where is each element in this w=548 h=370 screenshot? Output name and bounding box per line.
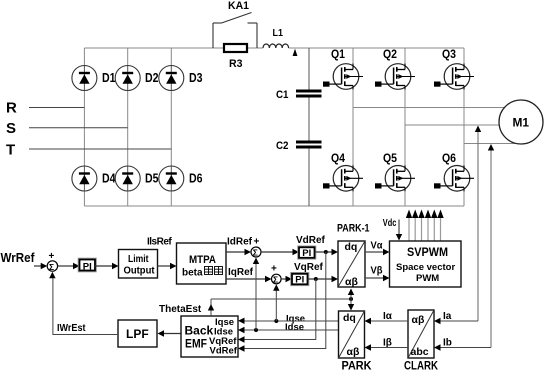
wire BackEMF to LPF [164, 333, 181, 335]
wire ThetaEst from BackEMF up to theta rail [210, 299, 212, 316]
svg-text:D6: D6 [189, 172, 203, 186]
svg-text:+: + [49, 251, 55, 262]
svg-text:Q5: Q5 [383, 151, 397, 165]
wire Idse PARK to BackEMF [245, 329, 339, 331]
node junction VqRef [314, 277, 318, 281]
node junction Iqse feedback [274, 319, 278, 323]
svg-text:Σ: Σ [253, 248, 258, 258]
wire Ibeta CLARK to PARK [371, 347, 408, 349]
diode D1 [72, 66, 97, 91]
svg-text:Q4: Q4 [331, 151, 345, 165]
op-amp PI speed regulator [78, 258, 96, 272]
wire bottom bus [84, 205, 464, 207]
transistor Q2 [375, 64, 415, 90]
svg-text:Vβ: Vβ [371, 265, 384, 277]
wire Ia to CLARK [441, 320, 479, 322]
summer S3 q-axis [272, 274, 282, 284]
svg-text:D4: D4 [102, 172, 116, 186]
wire summer S2 to PI d [261, 251, 293, 253]
wire Ib current tap [490, 145, 492, 348]
svg-text:PI: PI [295, 275, 304, 286]
wire inverter leg 2 [404, 48, 406, 125]
block MTPA beta control U-MTPA [177, 243, 227, 284]
transistor Q6 [434, 165, 474, 191]
wire theta to PARK-1 [350, 293, 352, 299]
svg-text:R3: R3 [229, 58, 243, 70]
svg-text:+: + [254, 237, 260, 248]
block CLARK transform [408, 310, 434, 358]
wire top bus left segment [84, 47, 263, 49]
relay KA1 [213, 13, 257, 49]
wire summer to PI speed [58, 265, 73, 267]
capacitor C2 [296, 141, 322, 144]
wire Valpha to SVPWM [365, 251, 383, 253]
wire motor phase U [353, 107, 504, 109]
wire rectifier column 2 [127, 48, 129, 206]
wire phase S input [29, 127, 128, 129]
svg-text:R: R [6, 100, 17, 117]
wire phase T input [29, 148, 171, 150]
svg-text:Σ: Σ [49, 262, 54, 272]
op-amp PI q-axis regulator [291, 273, 309, 286]
block Limit Output [119, 250, 158, 279]
svg-text:C2: C2 [276, 140, 289, 152]
diode D2 [115, 66, 140, 91]
svg-text:dq: dq [343, 312, 356, 324]
svg-text:VdRef: VdRef [210, 346, 238, 357]
svg-text:PI: PI [83, 261, 92, 272]
svg-text:D1: D1 [102, 71, 116, 85]
summer S2 d-axis [251, 247, 261, 257]
svg-text:Vα: Vα [371, 240, 383, 252]
svg-text:IlsRef: IlsRef [147, 237, 172, 248]
wire Vbeta to SVPWM [365, 277, 383, 279]
svg-text:L1: L1 [273, 27, 284, 39]
wire summer S3 to PI q [281, 278, 286, 280]
wire WrRef to summer [34, 265, 41, 267]
node junction theta [349, 297, 353, 301]
wire rectifier column 3 [170, 48, 172, 206]
op-amp PI d-axis regulator [298, 246, 316, 259]
svg-text:MTPA: MTPA [189, 254, 216, 266]
diode D5 [115, 166, 140, 191]
wire inverter leg 1 [352, 48, 354, 108]
svg-text:SVPWM: SVPWM [407, 247, 448, 259]
svg-text:dq: dq [345, 241, 358, 253]
wire motor phase V [405, 124, 500, 126]
svg-text:Vdc: Vdc [383, 218, 397, 229]
svg-text:VqRef: VqRef [294, 262, 324, 273]
svg-text:Limit: Limit [128, 254, 149, 265]
svg-text:T: T [6, 142, 15, 159]
wire top bus right segment after L1 [289, 47, 465, 49]
wire rectifier column 1 [83, 48, 85, 206]
wire Iqse feedback up to summer S3 [275, 289, 277, 321]
wire Limit Output to MTPA [158, 265, 171, 267]
wire phase R input [29, 107, 84, 109]
svg-text:KA1: KA1 [228, 0, 249, 12]
svg-text:IdRef: IdRef [227, 237, 253, 248]
wire theta to PARK [350, 299, 352, 305]
svg-text:ThetaEst: ThetaEst [159, 304, 202, 315]
node marker after L1 [293, 49, 298, 56]
svg-text:Ia: Ia [443, 311, 452, 322]
wire Iqse PARK to BackEMF [245, 320, 339, 322]
node junction Idse feedback [254, 328, 258, 332]
svg-text:abc: abc [411, 346, 429, 358]
block SVPWM space vector modulator [390, 241, 462, 287]
svg-text:Idse: Idse [285, 322, 304, 333]
wire MTPA IqRef out to summer S3 [226, 278, 265, 280]
resistor R3 [224, 44, 247, 52]
svg-text:Iα: Iα [383, 311, 393, 322]
diode D6 [159, 166, 184, 191]
summer S1 speed error [47, 261, 57, 271]
svg-text:PWM: PWM [416, 273, 439, 284]
svg-text:CLARK: CLARK [404, 359, 438, 370]
svg-text:αβ: αβ [347, 346, 360, 358]
block LPF low pass filter [118, 320, 157, 347]
wire motor phase W [464, 143, 517, 145]
wire Ib to CLARK [441, 347, 492, 349]
capacitor C1 [296, 90, 322, 93]
diode D3 [159, 66, 184, 91]
wire MTPA IdRef out to summer S2 [226, 251, 245, 253]
wire PI d to PARK-1 [315, 251, 332, 253]
block Back EMF estimator [181, 316, 238, 357]
svg-text:beta: beta [182, 268, 203, 279]
transistor Q4 [323, 165, 363, 191]
node junction VdRef [324, 250, 328, 254]
svg-text:M1: M1 [513, 116, 530, 130]
svg-text:Space vector: Space vector [396, 262, 455, 273]
svg-text:D2: D2 [145, 71, 159, 85]
svg-text:Iβ: Iβ [383, 338, 392, 349]
block PARK transform [339, 311, 365, 358]
motor M1 [499, 100, 543, 144]
svg-text:Output: Output [124, 266, 156, 277]
wire VdRef feedback to BackEMF [245, 252, 326, 349]
svg-text:+: + [271, 264, 277, 275]
wire VqRef feedback to BackEMF [245, 279, 316, 340]
wire inverter leg 3 [463, 48, 465, 144]
wire DC-link capacitor branch [308, 48, 310, 90]
inductor L1 [263, 44, 289, 48]
svg-text:Q3: Q3 [442, 47, 456, 61]
svg-text:LPF: LPF [126, 327, 149, 341]
svg-text:WrRef: WrRef [1, 251, 36, 265]
wire LPF to speed summer feedback [53, 277, 118, 335]
svg-text:PARK-1: PARK-1 [337, 223, 370, 235]
svg-text:PARK: PARK [342, 359, 372, 370]
wire Idse feedback up to summer S2 [255, 263, 257, 331]
PWM gate signal arrows [409, 217, 441, 241]
wire Ia current tap [477, 127, 479, 321]
wire Ialpha CLARK to PARK [371, 320, 408, 322]
svg-text:C1: C1 [276, 89, 289, 101]
transistor Q5 [375, 165, 415, 191]
svg-text:Q1: Q1 [331, 47, 345, 61]
svg-text:αβ: αβ [345, 276, 358, 288]
svg-text:Ib: Ib [443, 338, 452, 349]
wire PI to Limit Output [95, 265, 112, 267]
svg-text:PI: PI [302, 248, 311, 259]
wire PI q to PARK-1 [308, 278, 332, 280]
svg-text:D3: D3 [189, 71, 203, 85]
svg-text:Q2: Q2 [383, 47, 397, 61]
svg-text:VdRef: VdRef [296, 235, 326, 246]
diode D4 [72, 166, 97, 191]
svg-text:IWrEst: IWrEst [57, 323, 86, 334]
svg-text:IqRef: IqRef [228, 267, 254, 278]
svg-text:Σ: Σ [273, 275, 278, 285]
svg-text:S: S [6, 120, 16, 137]
svg-text:Q6: Q6 [442, 151, 456, 165]
transistor Q1 [323, 64, 363, 90]
svg-text:EMF: EMF [185, 337, 207, 351]
transistor Q3 [434, 64, 474, 90]
svg-text:D5: D5 [145, 172, 159, 186]
svg-text:αβ: αβ [412, 314, 425, 326]
